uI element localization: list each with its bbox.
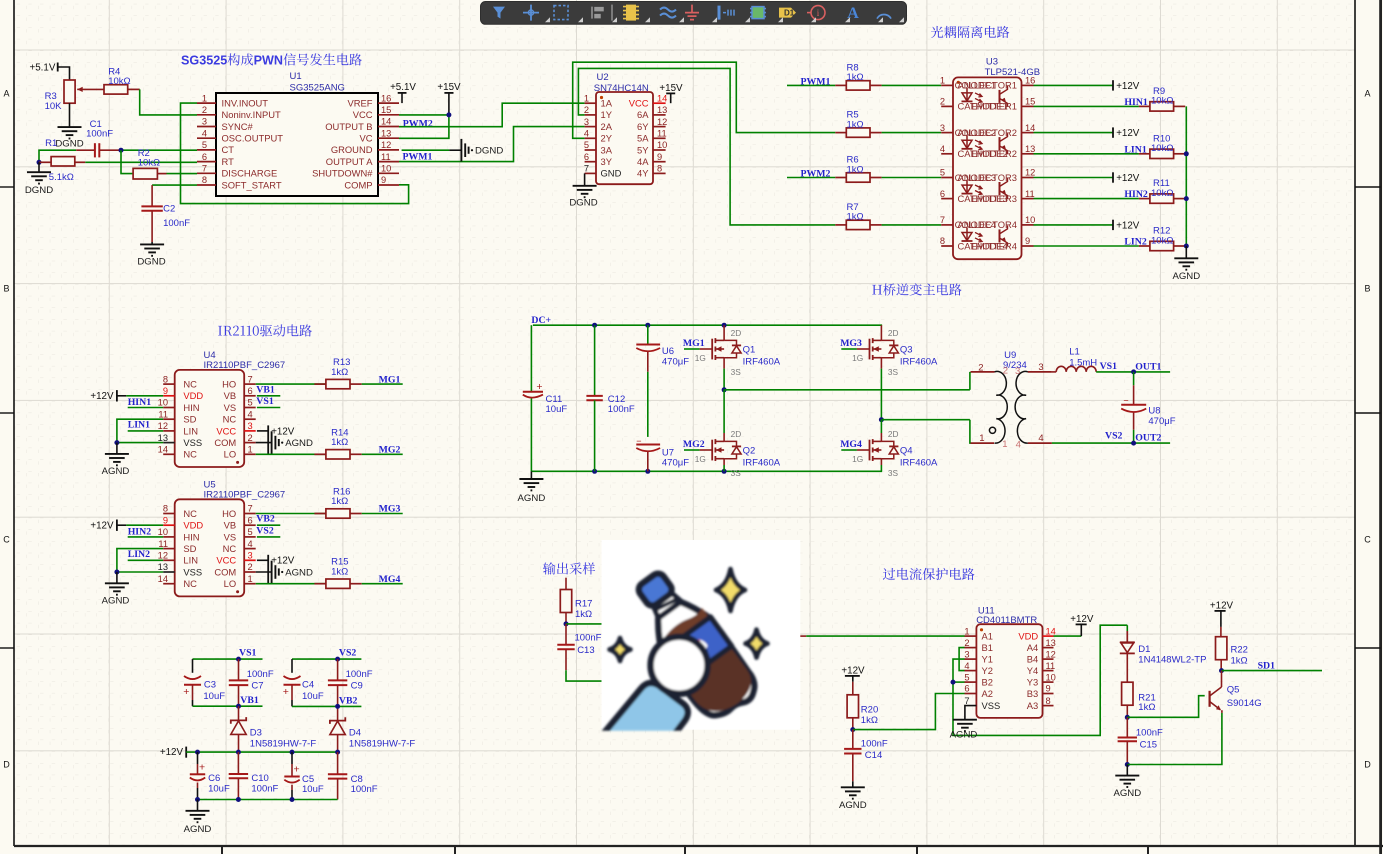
wire U4 SD/VSS (114, 419, 163, 445)
svg-text:MG4: MG4 (379, 574, 401, 585)
wire DC+ top rail (533, 323, 882, 328)
power flag +12V (opto row) (1113, 220, 1140, 232)
ground AGND (H-bridge) (518, 471, 546, 504)
net label VB1 (240, 695, 259, 706)
svg-text:11: 11 (657, 129, 667, 139)
svg-text:COLLECTOR4: COLLECTOR4 (955, 219, 1017, 230)
svg-text:1G: 1G (852, 454, 863, 464)
svg-text:LIN: LIN (183, 425, 198, 436)
svg-text:+: + (294, 763, 300, 775)
svg-text:10kΩ: 10kΩ (1151, 96, 1173, 107)
potentiometer R3 10K (45, 80, 104, 127)
svg-text:VCC: VCC (629, 98, 649, 109)
net label VB2 (256, 514, 280, 526)
svg-text:6: 6 (964, 684, 969, 694)
wire Q4 source to bottom rail (880, 459, 882, 472)
svg-text:HIN: HIN (183, 402, 199, 413)
op-amp U1 SG3525ANG (197, 71, 399, 196)
transistor Q1 IRF460A (683, 325, 781, 377)
svg-text:S: S (181, 54, 189, 68)
svg-text:3S: 3S (888, 468, 899, 478)
svg-text:100nF: 100nF (346, 669, 373, 680)
net label VB1 (256, 384, 280, 396)
svg-text:1G: 1G (695, 454, 706, 464)
svg-text:Y1: Y1 (982, 654, 993, 665)
svg-text:VREF: VREF (347, 97, 372, 108)
svg-text:INV.INOUT: INV.INOUT (222, 97, 269, 108)
svg-text:1kΩ: 1kΩ (331, 496, 348, 507)
wire U2 1Y to R7/U3 pin7 (578, 68, 835, 225)
ground AGND (C15) (1113, 765, 1141, 800)
capacitor C1 100nF (40, 119, 121, 157)
wire U2 2Y to R5/U3 pin3 (573, 62, 836, 138)
svg-text:U2: U2 (597, 72, 609, 83)
svg-text:8: 8 (202, 175, 207, 185)
inverter U2 SN74HC14N (584, 72, 668, 184)
svg-text:100nF: 100nF (861, 739, 888, 750)
transistor Q4 IRF460A (840, 429, 938, 478)
svg-text:MG2: MG2 (683, 439, 705, 450)
svg-text:B3: B3 (1027, 688, 1038, 699)
svg-text:3: 3 (1038, 362, 1043, 373)
svg-text:+5.1V: +5.1V (390, 82, 416, 93)
svg-text:AGND: AGND (102, 595, 130, 606)
wire U1 OUTPUT B to U2 1A (399, 103, 585, 127)
svg-text:IR2110PBF_C2967: IR2110PBF_C2967 (204, 489, 286, 500)
svg-text:1G: 1G (695, 353, 706, 363)
svg-text:W: W (262, 54, 274, 68)
svg-text:12: 12 (158, 421, 168, 431)
svg-text:4: 4 (248, 539, 253, 549)
svg-text:1G: 1G (852, 353, 863, 363)
wire U5 HO to R16 (256, 513, 326, 515)
wire U5 LO to R15 (256, 583, 326, 585)
svg-text:Q2: Q2 (743, 445, 756, 456)
svg-text:D: D (3, 760, 10, 770)
wire R7 to U3 pin7 (882, 224, 942, 226)
svg-text:2: 2 (248, 433, 253, 443)
svg-text:100nF: 100nF (1136, 728, 1163, 739)
svg-text:8: 8 (1046, 696, 1051, 706)
svg-text:9: 9 (1025, 236, 1030, 246)
ground AGND (U4 COM) (256, 431, 313, 454)
wire U1 VCC/VC (399, 112, 451, 138)
svg-text:1kΩ: 1kΩ (847, 212, 864, 223)
svg-text:A3: A3 (1027, 700, 1038, 711)
svg-text:NC: NC (183, 379, 197, 390)
svg-text:VS1: VS1 (239, 647, 257, 658)
svg-text:A2: A2 (982, 688, 993, 699)
svg-text:A1: A1 (982, 631, 993, 642)
svg-text:DGND: DGND (137, 257, 165, 268)
svg-text:G: G (189, 54, 199, 68)
svg-text:NC: NC (183, 508, 197, 519)
ground DGND (R3) (55, 127, 83, 149)
svg-text:1: 1 (940, 76, 945, 86)
svg-text:DGND: DGND (25, 185, 53, 196)
wire R13 to net MG1 (362, 383, 403, 385)
svg-text:C2: C2 (163, 204, 175, 215)
svg-text:100nF: 100nF (163, 218, 190, 229)
svg-text:C7: C7 (251, 680, 263, 691)
resistor R17 1kΩ (560, 578, 592, 624)
svg-text:12: 12 (1025, 168, 1035, 178)
svg-text:1kΩ: 1kΩ (331, 367, 348, 378)
svg-text:SD: SD (183, 543, 196, 554)
resistor R2 10kΩ (133, 148, 166, 179)
svg-text:MG1: MG1 (683, 338, 705, 349)
capacitor C13 100nF (557, 624, 640, 681)
power flag +15V (U1 VCC) (437, 82, 461, 115)
svg-text:11: 11 (381, 152, 391, 162)
svg-text:1kΩ: 1kΩ (1231, 656, 1248, 667)
svg-text:3S: 3S (888, 367, 899, 377)
svg-text:VB: VB (224, 390, 237, 401)
svg-text:GND: GND (601, 168, 622, 179)
wire ground rail (bootstrap) (195, 797, 338, 802)
svg-text:470μF: 470μF (662, 458, 689, 469)
svg-text:15: 15 (1025, 97, 1035, 107)
svg-text:+12V: +12V (1116, 220, 1140, 231)
resistor R4 10kΩ (104, 67, 140, 95)
svg-text:1kΩ: 1kΩ (847, 119, 864, 130)
svg-text:+15V: +15V (437, 82, 461, 93)
svg-text:B2: B2 (982, 677, 993, 688)
svg-text:PWM2: PWM2 (403, 118, 433, 129)
net label HIN2 (128, 526, 152, 537)
svg-text:VB: VB (224, 520, 237, 531)
svg-text:5: 5 (584, 140, 589, 150)
svg-text:12: 12 (158, 551, 168, 561)
title 光耦隔离电路 (931, 26, 1009, 38)
svg-text:L1: L1 (1069, 346, 1080, 357)
wire U3 to R9 (1034, 105, 1139, 107)
svg-text:3Y: 3Y (601, 156, 613, 167)
svg-text:100nF: 100nF (86, 129, 113, 140)
svg-text:13: 13 (158, 562, 168, 572)
svg-text:R22: R22 (1231, 645, 1248, 656)
svg-text:1kΩ: 1kΩ (1138, 702, 1155, 713)
svg-text:1: 1 (979, 433, 984, 444)
svg-text:MG4: MG4 (840, 439, 862, 450)
svg-text:1N5819HW-7-F: 1N5819HW-7-F (349, 739, 416, 750)
svg-text:HIN: HIN (183, 531, 199, 542)
net label VS1 (256, 396, 280, 407)
svg-text:3S: 3S (731, 468, 742, 478)
power flag +12V (R22) (1210, 601, 1234, 627)
svg-text:Y4: Y4 (1027, 665, 1038, 676)
wire C1 down to R2 (121, 150, 133, 173)
net label LIN1 (1124, 144, 1146, 155)
svg-text:5: 5 (202, 140, 207, 150)
svg-text:C13: C13 (577, 645, 594, 656)
wire VB2 rail (292, 704, 361, 709)
svg-text:5: 5 (206, 54, 213, 68)
ground AGND (C14) (839, 787, 867, 811)
svg-text:SHUTDOWN#: SHUTDOWN# (312, 168, 373, 179)
svg-text:NC: NC (183, 449, 197, 460)
resistor R10 10kΩ (1139, 133, 1185, 158)
svg-text:14: 14 (158, 574, 168, 584)
resistor R12 10kΩ (1139, 226, 1185, 251)
svg-text:VB1: VB1 (240, 695, 259, 706)
wire pulldown bus (R9-R12) (1184, 106, 1189, 248)
net label LIN2 (1124, 237, 1146, 248)
svg-text:+12V: +12V (271, 426, 295, 437)
svg-text:13: 13 (1025, 144, 1035, 154)
wire U4 LIN (128, 430, 164, 432)
svg-text:OUT2: OUT2 (1135, 432, 1161, 443)
svg-text:Q5: Q5 (1227, 685, 1240, 696)
svg-text:3: 3 (199, 54, 206, 68)
svg-text:LIN1: LIN1 (128, 420, 150, 431)
svg-text:9: 9 (1046, 684, 1051, 694)
svg-text:C: C (3, 535, 10, 545)
svg-text:14: 14 (381, 117, 391, 127)
power flag +12V (opto row) (1113, 172, 1140, 184)
svg-text:4: 4 (584, 129, 589, 139)
svg-text:4: 4 (248, 409, 253, 419)
svg-text:4: 4 (1038, 433, 1043, 444)
svg-text:100nF: 100nF (575, 633, 602, 644)
net label DC+ (531, 315, 551, 326)
svg-text:3: 3 (964, 649, 969, 659)
svg-text:SYNC#: SYNC# (222, 121, 254, 132)
node C15/Q5 emitter (1125, 762, 1130, 767)
svg-text:SN74HC14N: SN74HC14N (594, 83, 649, 94)
wire U3 to +12V flag (1034, 224, 1114, 226)
svg-text:VS2: VS2 (256, 526, 274, 537)
svg-text:100nF: 100nF (351, 784, 378, 795)
wire PWM2 to R6 (787, 177, 835, 179)
svg-text:VS1: VS1 (256, 396, 274, 407)
svg-text:3: 3 (202, 117, 207, 127)
wire U3 to +12V flag (1034, 177, 1114, 179)
net label LIN2 (128, 549, 150, 560)
title 过电流保护电路 (883, 568, 975, 580)
svg-text:16: 16 (381, 93, 391, 103)
svg-text:VS1: VS1 (1100, 361, 1118, 372)
net label OUT2 (1135, 432, 1161, 443)
wire VS2 rail (292, 657, 361, 662)
svg-text:IRF460A: IRF460A (743, 457, 781, 468)
svg-text:10: 10 (657, 140, 667, 150)
capacitor C12 100nF (586, 325, 635, 471)
svg-text:2D: 2D (731, 429, 742, 439)
power flag +5.1V (U1 VREF) (390, 82, 416, 103)
svg-text:2: 2 (248, 562, 253, 572)
svg-text:C10: C10 (251, 773, 268, 784)
svg-text:6: 6 (248, 386, 253, 396)
svg-text:VS2: VS2 (339, 647, 357, 658)
svg-text:LIN2: LIN2 (128, 549, 150, 560)
svg-text:+12V: +12V (1116, 173, 1140, 184)
svg-text:2: 2 (1003, 366, 1008, 377)
svg-text:COM: COM (214, 437, 236, 448)
wire U5 SD/VSS (114, 549, 163, 575)
svg-text:COMP: COMP (344, 179, 372, 190)
svg-text:A4: A4 (1027, 642, 1038, 653)
svg-text:C3: C3 (204, 680, 216, 691)
title IR2110驱动电路 (218, 324, 312, 336)
svg-text:2D: 2D (888, 328, 899, 338)
svg-text:A: A (1364, 89, 1370, 99)
svg-text:DC+: DC+ (531, 315, 551, 326)
svg-text:1N5819HW-7-F: 1N5819HW-7-F (250, 739, 317, 750)
svg-text:VDD: VDD (1018, 631, 1038, 642)
svg-text:14: 14 (1025, 123, 1035, 133)
net label MG3 (379, 504, 401, 515)
wire PWM1 to R8 (787, 84, 835, 86)
svg-text:P: P (254, 54, 262, 68)
svg-text:HIN2: HIN2 (128, 526, 152, 537)
svg-text:Q4: Q4 (900, 445, 913, 456)
svg-text:MG1: MG1 (379, 374, 401, 385)
wire U4 LO to R14 (256, 453, 326, 455)
svg-text:SD: SD (183, 414, 196, 425)
svg-text:+15V: +15V (659, 83, 683, 94)
svg-text:6: 6 (940, 189, 945, 199)
power flag +12V (U4 VDD) (90, 390, 163, 402)
svg-text:10: 10 (158, 398, 168, 408)
net label PWM1 (opto) (801, 76, 831, 87)
svg-text:C: C (1364, 535, 1371, 545)
wire R17 to U11 A1 (566, 624, 965, 636)
title H桥逆变主电路 (872, 283, 961, 295)
title SG3525构成PWN信号发生电路 (181, 53, 362, 67)
power flag +12V (U11 VDD) (1054, 614, 1094, 636)
svg-text:AGND: AGND (285, 567, 313, 578)
svg-text:EMITTER4: EMITTER4 (971, 240, 1017, 251)
svg-text:2: 2 (213, 54, 220, 68)
svg-text:7: 7 (248, 374, 253, 384)
net label MG2 (379, 445, 401, 456)
power flag +12V (opto row) (1113, 80, 1140, 92)
svg-text:8: 8 (163, 374, 168, 384)
svg-text:VDD: VDD (183, 520, 203, 531)
svg-text:11: 11 (158, 409, 168, 419)
svg-text:13: 13 (158, 433, 168, 443)
svg-text:10uF: 10uF (302, 784, 324, 795)
zone letters (3, 89, 1371, 770)
svg-text:+5.1V: +5.1V (30, 63, 56, 74)
svg-text:SG3525ANG: SG3525ANG (290, 83, 345, 94)
svg-text:+12V: +12V (271, 556, 295, 567)
svg-text:1kΩ: 1kΩ (331, 437, 348, 448)
svg-text:10uF: 10uF (203, 691, 225, 702)
net label MG4 (379, 574, 401, 585)
svg-text:2D: 2D (731, 328, 742, 338)
capacitor C4 10uF (283, 659, 324, 706)
svg-text:N: N (274, 54, 283, 68)
svg-text:D: D (1364, 760, 1371, 770)
svg-text:5.1kΩ: 5.1kΩ (49, 172, 74, 183)
svg-text:13: 13 (657, 105, 667, 115)
svg-text:LIN: LIN (183, 555, 198, 566)
wire R21 to Q5 base (1127, 696, 1204, 718)
svg-text:8: 8 (940, 236, 945, 246)
svg-text:3: 3 (248, 421, 253, 431)
svg-text:2: 2 (964, 638, 969, 648)
svg-text:GROUND: GROUND (331, 144, 373, 155)
svg-text:+12V: +12V (1210, 601, 1234, 612)
svg-text:5: 5 (220, 54, 227, 68)
ground AGND (U4 VSS) (102, 443, 130, 477)
ground AGND (U11 VSS) (950, 706, 978, 741)
svg-text:1Y: 1Y (601, 109, 613, 120)
svg-text:4A: 4A (637, 156, 649, 167)
net label VS2 (256, 526, 280, 537)
capacitor C6 10uF (190, 752, 230, 799)
node R21/C15 (1125, 715, 1130, 720)
gate driver U5 IR2110PBF_C2967 (158, 480, 286, 597)
svg-text:S9014G: S9014G (1227, 698, 1262, 709)
svg-text:Y2: Y2 (982, 665, 993, 676)
svg-text:COLLECTOR3: COLLECTOR3 (955, 172, 1017, 183)
svg-text:+12V: +12V (841, 666, 865, 677)
svg-text:+12V: +12V (1070, 614, 1094, 625)
svg-text:VDD: VDD (183, 390, 203, 401)
svg-text:1kΩ: 1kΩ (861, 715, 878, 726)
resistor R14 1kΩ (314, 427, 361, 459)
svg-text:5Y: 5Y (637, 144, 649, 155)
capacitor C9 100nF (328, 659, 373, 706)
svg-text:7: 7 (248, 504, 253, 514)
wire U3 to R12 (1034, 245, 1139, 247)
svg-text:AGND: AGND (518, 493, 546, 504)
wire bottom rail (531, 469, 882, 474)
wire primary pin1 (969, 420, 972, 443)
resistor R22 1kΩ (1216, 627, 1248, 671)
svg-text:DGND: DGND (569, 198, 597, 209)
svg-text:B1: B1 (982, 642, 993, 653)
svg-text:5A: 5A (637, 133, 649, 144)
svg-text:10K: 10K (45, 101, 63, 112)
ground AGND (U5 VSS) (102, 572, 130, 606)
power flag +12V (U5 VDD) (90, 520, 163, 532)
svg-text:14: 14 (657, 93, 667, 103)
wire R14 to net MG2 (362, 453, 403, 455)
net label VS2 (bootstrap) (339, 647, 357, 658)
wire secondary to OUT2 (1052, 441, 1170, 446)
svg-text:4: 4 (964, 661, 969, 671)
svg-text:HO: HO (222, 379, 236, 390)
svg-text:5: 5 (248, 527, 253, 537)
resistor R20 1kΩ (847, 682, 878, 730)
svg-text:10uF: 10uF (208, 784, 230, 795)
svg-text:A: A (3, 89, 9, 99)
svg-text:12: 12 (1046, 649, 1056, 659)
svg-text:6A: 6A (637, 109, 649, 120)
svg-text:D1: D1 (784, 9, 795, 18)
diode D3 1N5819HW-7-F (231, 706, 317, 752)
svg-text:5: 5 (940, 168, 945, 178)
svg-text:7: 7 (940, 215, 945, 225)
wire U11 Y1 to B2 and feedback (951, 625, 1128, 735)
svg-text:1kΩ: 1kΩ (575, 609, 592, 620)
wire U5 LIN (128, 559, 164, 561)
svg-text:U1: U1 (290, 71, 302, 82)
svg-text:1.5mH: 1.5mH (1069, 358, 1097, 369)
svg-text:OUT1: OUT1 (1135, 362, 1161, 373)
svg-text:+12V: +12V (1116, 128, 1140, 139)
svg-text:12: 12 (657, 117, 667, 127)
svg-text:Q1: Q1 (743, 344, 756, 355)
power flag +12V (U5 VCC) (257, 555, 295, 584)
diode D1 1N4148WL2-TP (1120, 625, 1207, 682)
svg-text:AGND: AGND (839, 800, 867, 811)
capacitor C10 100nF (229, 752, 279, 799)
